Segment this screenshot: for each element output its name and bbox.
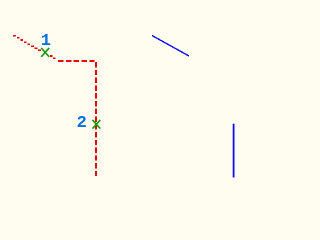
node marker 2 (green X point) xyxy=(93,121,100,128)
wire: dashed red diagonal segment xyxy=(13,35,55,59)
svg-text:2: 2 xyxy=(77,114,87,133)
wire: solid blue diagonal line xyxy=(152,36,189,57)
wire: solid blue vertical line xyxy=(233,124,235,178)
svg-text:1: 1 xyxy=(41,32,51,51)
node marker 1 (green X point) xyxy=(42,49,49,57)
wire: dashed red horizontal + vertical segments xyxy=(57,61,96,177)
